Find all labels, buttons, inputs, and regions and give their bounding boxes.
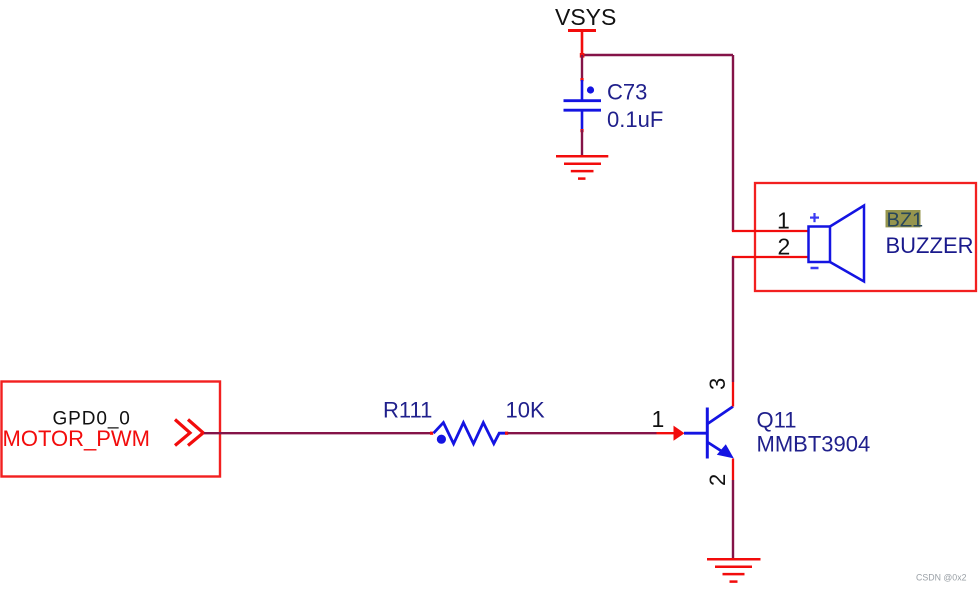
svg-text:1: 1 <box>652 406 665 432</box>
svg-text:VSYS: VSYS <box>555 4 616 30</box>
buzzer box outline <box>755 183 976 291</box>
wire buzzer pin 1 <box>732 230 808 232</box>
wire buzzer pin2 down to Q11 collector <box>732 257 734 382</box>
svg-text:0.1uF: 0.1uF <box>607 107 663 132</box>
svg-text:10K: 10K <box>506 398 545 423</box>
svg-text:1: 1 <box>777 208 790 234</box>
svg-text:MMBT3904: MMBT3904 <box>757 432 871 457</box>
wire Q11 emitter to ground <box>732 480 734 559</box>
pin dot C73 top <box>580 78 583 81</box>
ground at Q11 emitter <box>707 559 761 581</box>
svg-text:CSDN @0x2: CSDN @0x2 <box>916 573 967 583</box>
Q11 base red arrow <box>674 426 685 441</box>
wire VSYS horizontal to buzzer branch <box>582 54 733 56</box>
junction node at VSYS/C73 <box>580 53 585 58</box>
resistor origin dot <box>437 435 446 444</box>
pin dot R111 right <box>505 432 508 435</box>
svg-text:C73: C73 <box>607 80 647 105</box>
svg-text:3: 3 <box>705 378 730 390</box>
pin dot C73 bottom <box>580 129 583 132</box>
svg-text:MOTOR_PWM: MOTOR_PWM <box>3 426 150 451</box>
wire VSYS down to C73 <box>581 55 583 80</box>
svg-text:2: 2 <box>705 474 730 486</box>
buzzer BZ1 speaker symbol <box>809 206 865 282</box>
svg-text:Q11: Q11 <box>757 408 797 433</box>
wire C73 to ground <box>581 130 583 156</box>
Q11 base pin lead <box>657 432 674 434</box>
port chevron <box>175 420 203 446</box>
wire port to R111 <box>204 432 431 434</box>
svg-text:2: 2 <box>778 234 791 260</box>
wire vertical down to buzzer pin 1 <box>732 55 734 231</box>
ground under C73 <box>556 156 608 178</box>
svg-text:BUZZER: BUZZER <box>886 233 974 258</box>
port box GPD0_0 <box>2 382 221 477</box>
plus sign <box>810 213 819 222</box>
pin dot R111 left <box>430 432 433 435</box>
Q11 emitter arrowhead <box>717 444 734 458</box>
wire R111 to Q11 base <box>508 432 657 434</box>
svg-text:R111: R111 <box>383 398 432 423</box>
Q11 emitter pin lead <box>732 459 734 481</box>
wire buzzer pin 2 <box>732 256 808 258</box>
transistor Q11 <box>684 407 733 459</box>
capacitor C73 <box>564 80 602 130</box>
power symbol VSYS <box>555 4 616 55</box>
BZ1 highlight <box>886 210 921 227</box>
resistor R111 zigzag <box>434 423 506 444</box>
minus sign <box>811 267 819 270</box>
Q11 collector pin lead <box>732 382 734 407</box>
svg-text:BZ1: BZ1 <box>887 210 924 232</box>
